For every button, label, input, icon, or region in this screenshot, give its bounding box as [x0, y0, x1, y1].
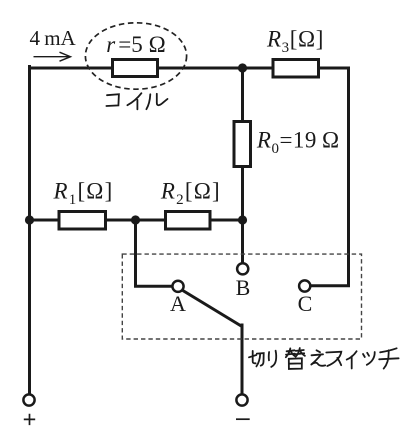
- katakana ko: [106, 94, 119, 106]
- wire minus terminal: [241, 325, 244, 394]
- switch blade A to pole: [183, 291, 242, 327]
- svg-text:C: C: [298, 291, 313, 316]
- wire R0 branch to B: [241, 68, 244, 262]
- contact circle B: [237, 263, 248, 274]
- hiragana ri: [269, 351, 276, 367]
- katakana i: [127, 93, 141, 109]
- kanji kiri right part: [256, 353, 263, 366]
- label minus: [236, 418, 250, 420]
- katakana su: [326, 352, 341, 366]
- svg-text:B: B: [236, 275, 251, 300]
- terminal circle plus: [23, 394, 34, 405]
- coil dashed ellipse: [85, 23, 186, 89]
- svg-text:A: A: [170, 291, 186, 316]
- resistor r body: [113, 60, 158, 77]
- junction node right (R2/R0/B): [238, 215, 247, 224]
- wire right vertical + to C: [312, 68, 349, 286]
- label koiru (coil) katakana: [106, 93, 167, 109]
- katakana ru: [146, 94, 167, 109]
- wire R1 R2 row: [30, 219, 243, 222]
- switch dashed box: [122, 254, 361, 339]
- wire left vertical: [28, 67, 31, 394]
- svg-text:4 mA: 4 mA: [30, 26, 77, 50]
- hiragana e: [311, 350, 325, 365]
- katakana i2: [347, 351, 357, 368]
- svg-text:r=5Ω: r=5Ω: [106, 32, 165, 57]
- terminal circle minus: [236, 394, 247, 405]
- contact circle C: [299, 280, 310, 291]
- kanji kae bottom: [289, 358, 302, 369]
- label plus: [24, 414, 35, 425]
- resistor R2 body: [166, 212, 211, 230]
- current arrow 4mA: [34, 52, 71, 61]
- katakana chi: [379, 348, 398, 368]
- katakana small tsu: [363, 352, 375, 365]
- label kirikae switch: [249, 348, 399, 369]
- resistor R3 body: [273, 60, 319, 78]
- resistor R0 body: [234, 122, 251, 167]
- wire top horizontal: [30, 67, 349, 70]
- kanji kiri left part: [249, 351, 256, 363]
- junction node top (R0/top wire): [238, 63, 247, 72]
- kanji kae top: [286, 348, 305, 357]
- junction node left (R1 row): [25, 215, 34, 224]
- resistor R1 body: [59, 212, 106, 230]
- junction node mid (R2/A branch): [131, 215, 140, 224]
- wire node to A: [136, 220, 172, 286]
- contact circle A: [172, 281, 183, 292]
